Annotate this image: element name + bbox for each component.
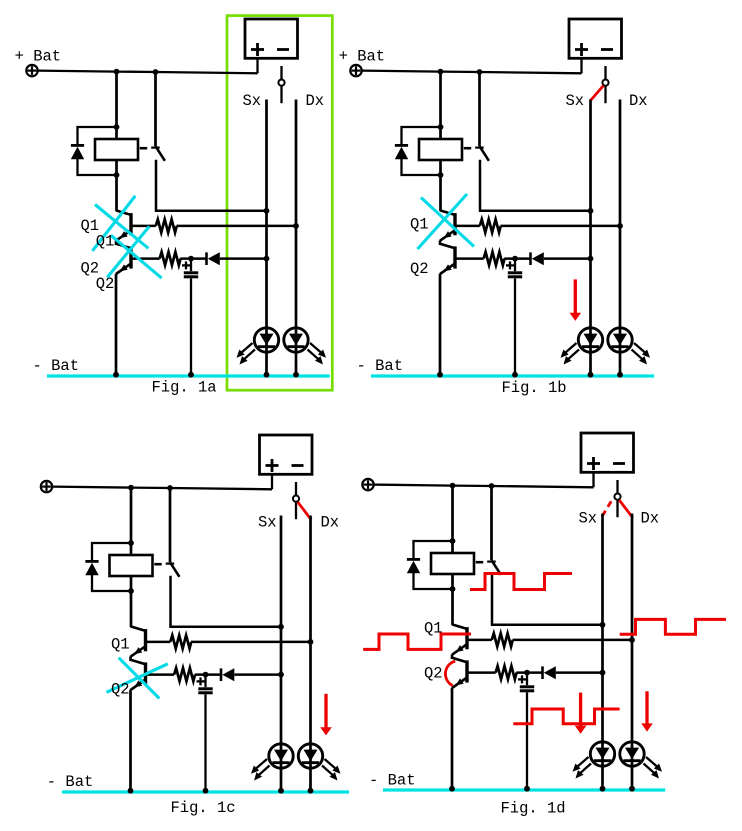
node relay bottom junction (Fig 1c) <box>128 588 134 594</box>
capacitor C1 (Fig 1a) <box>184 271 198 274</box>
node relay bottom junction (Fig 1d) <box>450 586 456 592</box>
wire R1 to Dx (Fig 1d) <box>513 639 633 642</box>
Q2 transistor bar (Fig 1b) <box>453 246 456 268</box>
Q1 emitter lead with arrow (Fig 1c) <box>131 646 146 657</box>
svg-text:Dx: Dx <box>306 92 325 110</box>
wire Q1 base lead (Fig 1c) <box>146 641 171 644</box>
battery B1 (Fig 1b) <box>569 19 622 58</box>
node ground Sx (Fig 1d) <box>600 786 606 792</box>
node bus-contact junction (Fig 1b) <box>477 69 483 75</box>
node Sx diode-line junction (Fig 1a) <box>264 256 270 262</box>
switch SW1 blade (Fig 1a) <box>280 86 282 103</box>
wire Q2 emitter to ground (Fig 1b) <box>439 274 442 375</box>
node relay bottom junction (Fig 1a) <box>114 172 120 178</box>
node ground Sx (Fig 1b) <box>588 372 594 378</box>
wire D2 to Sx (Fig 1b) <box>544 257 591 260</box>
node ground capacitor (Fig 1a) <box>188 372 194 378</box>
capacitor C1 (Fig 1b) <box>508 271 522 274</box>
node ground capacitor (Fig 1b) <box>512 372 518 378</box>
wire node A to capacitor (Fig 1b) <box>514 259 516 272</box>
switch SW1 red blade to Dx (Fig 1d) <box>619 500 633 518</box>
node ground capacitor (Fig 1c) <box>203 788 209 794</box>
Q1 transistor bar (Fig 1a) <box>129 213 132 235</box>
red waveform 4 (Fig 1d) <box>513 709 619 724</box>
diode D2 (Fig 1d) <box>541 666 544 679</box>
Q1 emitter lead with arrow (Fig 1d) <box>452 644 467 655</box>
wire flyback diode branch (Fig 1a) <box>78 127 117 145</box>
LED LS (Sx) (Fig 1a) <box>254 328 278 352</box>
relay mechanical link dash (Fig 1a) <box>140 147 147 150</box>
svg-text:Sx: Sx <box>566 92 585 110</box>
node A junction (Fig 1d) <box>524 670 530 676</box>
resistor R2 (Fig 1c) <box>174 668 195 681</box>
capacitor C1 (Fig 1d) <box>520 685 534 688</box>
wire Q2 emitter to ground (Fig 1d) <box>451 688 454 789</box>
diode D2 (Fig 1a) <box>205 252 208 265</box>
red waveform 2 (Fig 1d) <box>363 634 471 649</box>
wire Sx column (Fig 1b) <box>589 100 592 376</box>
wire R1 to Dx (Fig 1c) <box>191 641 311 644</box>
relay contact blade (Fig 1a) <box>156 146 165 161</box>
wire Q1 base lead (Fig 1b) <box>455 225 480 228</box>
Q1 transistor bar (Fig 1d) <box>465 627 468 649</box>
svg-text:Dx: Dx <box>629 92 648 110</box>
cyan X mark stroke 1 (Fig 1b) <box>421 198 474 247</box>
relay coil K1 (Fig 1b) <box>419 139 462 160</box>
svg-text:+ Bat: + Bat <box>15 48 62 66</box>
node Sx diode-line junction (Fig 1c) <box>278 672 284 678</box>
node ground Sx (Fig 1c) <box>278 788 284 794</box>
wire R2 to node A (Fig 1d) <box>516 671 542 674</box>
svg-text:Fig. 1d: Fig. 1d <box>501 800 566 818</box>
svg-text:Q2: Q2 <box>96 275 115 293</box>
battery B1 (Fig 1c) <box>260 435 313 474</box>
switch SW1 blade (Fig 1c) <box>295 502 297 519</box>
Q2 collector lead (Fig 1a) <box>116 244 131 249</box>
LED LD (Dx) (Fig 1a) <box>284 328 308 352</box>
LED LS (Sx) (Fig 1b) <box>578 328 602 352</box>
battery B1 (Fig 1d) <box>581 433 634 472</box>
Q2 collector lead (Fig 1b) <box>440 244 455 249</box>
node Sx contact-line junction (Fig 1b) <box>588 208 594 214</box>
relay contact blade (Fig 1c) <box>170 562 179 577</box>
capacitor C1 plus sign (Fig 1c) <box>197 680 205 682</box>
wire bus to relay coil (Fig 1d) <box>451 486 454 625</box>
node ground Sx (Fig 1a) <box>264 372 270 378</box>
Q1 collector lead (Fig 1a) <box>116 210 131 215</box>
switch SW1 dashed red blade to Sx (Fig 1d) <box>602 501 612 517</box>
Q1 collector lead (Fig 1d) <box>452 624 467 629</box>
wire Q2 emitter to ground (Fig 1a) <box>115 274 118 375</box>
wire Q1 base lead (Fig 1d) <box>467 639 492 642</box>
svg-text:- Bat: - Bat <box>33 357 80 375</box>
wire battery plus to bus (Fig 1c) <box>271 475 273 490</box>
ground rail -Bat (Fig 1c) <box>62 790 349 793</box>
battery positive terminal (Fig 1c) <box>41 481 52 492</box>
wire battery plus to bus (Fig 1b) <box>580 59 582 74</box>
wire Sx column (Fig 1d) <box>601 514 604 790</box>
resistor R1 (Fig 1d) <box>492 633 513 646</box>
Q1 transistor bar (Fig 1c) <box>144 629 147 651</box>
green highlight box (Fig 1a) <box>227 16 332 391</box>
Q2 transistor bar (Fig 1d) <box>465 660 468 682</box>
switch SW1 red blade to Sx (Fig 1b) <box>591 86 604 101</box>
switch SW1 red blade to Dx (Fig 1c) <box>298 502 312 520</box>
wire bus to relay coil (Fig 1c) <box>130 488 133 627</box>
switch SW1 pivot (Fig 1b) <box>602 80 608 86</box>
wire R2 to node A (Fig 1a) <box>180 257 206 260</box>
LED LS (Sx) (Fig 1c) <box>269 744 293 768</box>
red waveform 3 (Fig 1d) <box>620 619 726 634</box>
relay mechanical link dash (Fig 1c) <box>154 563 161 566</box>
LED LS (Sx) (Fig 1d) <box>590 742 614 766</box>
resistor R1 (Fig 1a) <box>156 219 177 232</box>
Q2 emitter lead with arrow (Fig 1d) <box>452 678 467 689</box>
node bus-contact junction (Fig 1d) <box>489 483 495 489</box>
cyan X mark stroke 2 (Fig 1a) <box>95 205 148 249</box>
wire flyback diode branch (Fig 1b) <box>402 127 441 145</box>
wire Dx column (Fig 1a) <box>295 100 298 376</box>
Q2 emitter lead with arrow (Fig 1b) <box>440 264 455 275</box>
resistor R1 (Fig 1c) <box>170 635 191 648</box>
svg-text:Q1: Q1 <box>424 620 443 638</box>
svg-text:Q1: Q1 <box>111 636 130 654</box>
wire Q1 emitter to Q2 collector (Fig 1d) <box>451 654 454 659</box>
wire flyback diode branch (Fig 1c) <box>92 543 131 561</box>
wire battery minus to switch (Fig 1d) <box>616 480 618 493</box>
switch SW1 pivot (Fig 1c) <box>293 496 299 502</box>
node ground Dx (Fig 1d) <box>629 786 635 792</box>
switch SW1 blade (Fig 1b) <box>604 86 606 103</box>
node bus-contact junction (Fig 1c) <box>167 485 173 491</box>
cyan X mark stroke 1 (Fig 1c) <box>119 658 160 699</box>
Q1 collector lead (Fig 1b) <box>440 210 455 215</box>
wire D2 to Sx (Fig 1a) <box>220 257 267 260</box>
svg-text:- Bat: - Bat <box>357 357 404 375</box>
wire Q1 emitter to Q2 collector (Fig 1a) <box>115 240 118 245</box>
node bus-contact junction (Fig 1a) <box>153 69 159 75</box>
node Sx contact-line junction (Fig 1a) <box>264 208 270 214</box>
wire relay contact to Sx (Fig 1c) <box>171 576 282 627</box>
resistor R2 (Fig 1a) <box>160 252 181 265</box>
node Dx R1-line junction (Fig 1d) <box>629 637 635 643</box>
node ground Dx (Fig 1c) <box>308 788 314 794</box>
wire Q1 emitter to Q2 collector (Fig 1c) <box>129 656 132 661</box>
wire flyback diode branch (Fig 1d) <box>414 541 453 559</box>
node Sx contact-line junction (Fig 1c) <box>278 624 284 630</box>
Q1 collector lead (Fig 1c) <box>131 626 146 631</box>
battery B1 (Fig 1a) <box>245 19 298 58</box>
wire R1 to Dx (Fig 1a) <box>177 225 297 228</box>
Q2 emitter lead with arrow (Fig 1c) <box>131 680 146 691</box>
wire bus to relay contact (Fig 1a) <box>154 72 157 146</box>
Q2 collector lead (Fig 1c) <box>131 660 146 665</box>
svg-text:Fig. 1a: Fig. 1a <box>152 379 217 397</box>
Q1 transistor bar (Fig 1b) <box>453 213 456 235</box>
Q1 emitter lead with arrow (Fig 1a) <box>116 230 131 241</box>
relay contact fixed tick (Fig 1b) <box>475 147 484 149</box>
wire battery minus to switch (Fig 1b) <box>604 66 606 79</box>
node bus-relay junction (Fig 1d) <box>450 483 456 489</box>
wire Q2 emitter to ground (Fig 1c) <box>129 690 132 791</box>
svg-text:Sx: Sx <box>579 510 598 528</box>
wire Q2 base lead (Fig 1c) <box>146 673 175 676</box>
cyan X mark stroke 2 (Fig 1c) <box>107 664 168 693</box>
red current arrow 1 (Fig 1d) <box>579 693 582 727</box>
relay coil K1 (Fig 1c) <box>110 555 153 576</box>
wire relay contact to Sx (Fig 1d) <box>492 574 603 625</box>
node Sx diode-line junction (Fig 1b) <box>588 256 594 262</box>
wire capacitor to ground (Fig 1c) <box>204 694 206 791</box>
wire capacitor to ground (Fig 1d) <box>526 692 528 789</box>
wire capacitor to ground (Fig 1b) <box>514 278 516 375</box>
cyan X mark stroke 4 (Fig 1a) <box>107 226 149 277</box>
wire +Bat bus (Fig 1d) <box>374 485 594 488</box>
wire bus to relay contact (Fig 1b) <box>478 72 481 146</box>
svg-text:+ Bat: + Bat <box>339 48 386 66</box>
svg-text:Q2: Q2 <box>111 681 130 699</box>
node ground Q2 (Fig 1c) <box>128 788 134 794</box>
diode D2 (Fig 1c) <box>220 668 223 681</box>
relay mechanical link dash (Fig 1d) <box>476 561 483 564</box>
wire bus to relay coil (Fig 1a) <box>115 72 118 211</box>
relay contact blade (Fig 1b) <box>480 146 489 161</box>
wire Dx column (Fig 1b) <box>619 100 622 376</box>
wire R2 to node A (Fig 1c) <box>195 673 221 676</box>
red waveform 1 (Fig 1d) <box>470 574 572 590</box>
relay coil K1 (Fig 1d) <box>431 553 474 574</box>
node ground Q2 (Fig 1b) <box>437 372 443 378</box>
wire D2 to Sx (Fig 1d) <box>556 671 603 674</box>
wire +Bat bus (Fig 1a) <box>38 71 258 74</box>
red current arrow 1 (Fig 1b) <box>574 279 577 313</box>
wire battery minus to switch (Fig 1a) <box>280 66 282 79</box>
flyback diode D1 (Fig 1c) <box>85 560 98 563</box>
wire battery minus to switch (Fig 1c) <box>295 482 297 495</box>
wire capacitor to ground (Fig 1a) <box>190 278 192 375</box>
relay contact fixed tick (Fig 1c) <box>166 562 175 564</box>
diode D2 (Fig 1b) <box>529 252 532 265</box>
flyback diode D1 (Fig 1a) <box>71 144 84 147</box>
node relay top junction (Fig 1b) <box>438 124 444 130</box>
node ground Dx (Fig 1b) <box>617 372 623 378</box>
node bus-relay junction (Fig 1c) <box>128 485 134 491</box>
node relay top junction (Fig 1c) <box>128 540 134 546</box>
svg-text:Fig. 1b: Fig. 1b <box>502 379 567 397</box>
relay mechanical link dash (Fig 1b) <box>464 147 471 150</box>
wire node A to capacitor (Fig 1c) <box>204 675 206 688</box>
LED LD (Dx) (Fig 1d) <box>620 742 644 766</box>
Q2 transistor bar (Fig 1a) <box>129 246 132 268</box>
switch SW1 blade (Fig 1d) <box>616 500 618 517</box>
node Sx diode-line junction (Fig 1d) <box>600 670 606 676</box>
wire Q2 base lead (Fig 1b) <box>455 257 484 260</box>
resistor R2 (Fig 1b) <box>484 252 505 265</box>
node bus-relay junction (Fig 1b) <box>438 69 444 75</box>
node relay top junction (Fig 1d) <box>450 538 456 544</box>
svg-text:Sx: Sx <box>243 92 262 110</box>
wire bus to relay coil (Fig 1b) <box>439 72 442 211</box>
svg-text:Q1: Q1 <box>410 216 429 234</box>
red highlight arc on Q2 (Fig 1d) <box>445 661 455 686</box>
resistor R2 (Fig 1d) <box>496 666 517 679</box>
wire bus to relay contact (Fig 1c) <box>169 488 172 562</box>
resistor R1 (Fig 1b) <box>480 219 501 232</box>
flyback diode D1 (Fig 1d) <box>407 558 420 561</box>
relay contact blade (Fig 1d) <box>492 560 501 575</box>
Q1 emitter lead with arrow (Fig 1b) <box>440 230 455 241</box>
ground rail -Bat (Fig 1b) <box>371 374 654 377</box>
flyback diode D1 (Fig 1b) <box>395 144 408 147</box>
node ground Dx (Fig 1a) <box>293 372 299 378</box>
node Dx R1-line junction (Fig 1b) <box>617 223 623 229</box>
svg-text:Q2: Q2 <box>410 260 429 278</box>
node relay bottom junction (Fig 1b) <box>438 172 444 178</box>
node Dx R1-line junction (Fig 1a) <box>293 223 299 229</box>
LED LD (Dx) (Fig 1c) <box>298 744 322 768</box>
Q2 transistor bar (Fig 1c) <box>144 662 147 684</box>
wire bus to relay contact (Fig 1d) <box>490 486 493 560</box>
node ground Q2 (Fig 1d) <box>449 786 455 792</box>
wire battery plus to bus (Fig 1d) <box>592 473 594 488</box>
relay coil K1 (Fig 1a) <box>95 139 138 160</box>
wire node A to capacitor (Fig 1a) <box>190 259 192 272</box>
switch SW1 pivot (Fig 1d) <box>614 494 620 500</box>
wire +Bat bus (Fig 1c) <box>52 487 272 490</box>
capacitor C1 plus sign (Fig 1a) <box>182 264 190 266</box>
node ground capacitor (Fig 1d) <box>524 786 530 792</box>
wire +Bat bus (Fig 1b) <box>362 71 582 74</box>
wire R2 to node A (Fig 1b) <box>504 257 530 260</box>
battery positive terminal (Fig 1b) <box>350 65 361 76</box>
node ground Q2 (Fig 1a) <box>113 372 119 378</box>
wire battery plus to bus (Fig 1a) <box>256 59 258 74</box>
cyan X mark stroke 3 (Fig 1a) <box>111 235 162 278</box>
wire D2 to Sx (Fig 1c) <box>234 673 281 676</box>
battery positive terminal (Fig 1d) <box>362 479 373 490</box>
wire node A to capacitor (Fig 1d) <box>526 673 528 686</box>
node Dx R1-line junction (Fig 1c) <box>308 639 314 645</box>
relay contact fixed tick (Fig 1d) <box>487 560 496 562</box>
svg-text:- Bat: - Bat <box>47 773 94 791</box>
svg-text:Fig. 1c: Fig. 1c <box>171 799 236 817</box>
capacitor C1 (Fig 1c) <box>198 687 212 690</box>
wire Sx column (Fig 1c) <box>280 516 283 792</box>
wire Q2 base lead (Fig 1d) <box>467 671 496 674</box>
svg-text:- Bat: - Bat <box>369 772 416 790</box>
node A junction (Fig 1c) <box>203 672 209 678</box>
svg-text:Dx: Dx <box>321 514 340 532</box>
wire Q2 base lead (Fig 1a) <box>131 257 160 260</box>
Q2 collector lead (Fig 1d) <box>452 658 467 663</box>
svg-text:Q1: Q1 <box>96 233 115 251</box>
cyan X mark stroke 1 (Fig 1a) <box>92 196 135 251</box>
svg-text:Dx: Dx <box>641 510 660 528</box>
wire relay contact to Sx (Fig 1a) <box>156 160 267 211</box>
wire R1 to Dx (Fig 1b) <box>501 225 621 228</box>
battery positive terminal (Fig 1a) <box>26 65 37 76</box>
red current arrow 1 (Fig 1c) <box>324 694 327 728</box>
node Sx contact-line junction (Fig 1d) <box>600 622 606 628</box>
svg-text:Q2: Q2 <box>424 665 443 683</box>
wire Q1 base lead (Fig 1a) <box>131 225 156 228</box>
node A junction (Fig 1a) <box>188 256 194 262</box>
wire Dx column (Fig 1c) <box>309 516 312 792</box>
wire Q1 emitter to Q2 collector (Fig 1b) <box>439 240 442 245</box>
wire Dx column (Fig 1d) <box>631 514 634 790</box>
wire Sx column (Fig 1a) <box>265 100 268 376</box>
red current arrow 2 (Fig 1d) <box>645 691 648 724</box>
svg-text:Sx: Sx <box>258 514 277 532</box>
ground rail -Bat (Fig 1a) <box>47 374 330 377</box>
node relay top junction (Fig 1a) <box>114 124 120 130</box>
relay contact fixed tick (Fig 1a) <box>151 147 160 149</box>
wire relay contact to Sx (Fig 1b) <box>480 160 591 211</box>
Q2 emitter lead with arrow (Fig 1a) <box>116 264 131 275</box>
capacitor C1 plus sign (Fig 1d) <box>518 678 526 680</box>
ground rail -Bat (Fig 1d) <box>383 788 665 791</box>
switch SW1 pivot (Fig 1a) <box>278 80 284 86</box>
capacitor C1 plus sign (Fig 1b) <box>506 264 514 266</box>
node bus-relay junction (Fig 1a) <box>114 69 120 75</box>
node A junction (Fig 1b) <box>512 256 518 262</box>
cyan X mark stroke 2 (Fig 1b) <box>418 194 468 249</box>
LED LD (Dx) (Fig 1b) <box>608 328 632 352</box>
